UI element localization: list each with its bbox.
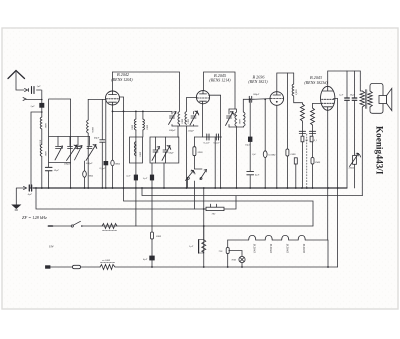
svg-text:B 2043: B 2043 xyxy=(253,244,257,254)
wire grid feed column x102.3 xyxy=(101,99,103,188)
varcap VC1 xyxy=(55,146,63,160)
svg-text:0,1µF: 0,1µF xyxy=(204,142,211,145)
svg-text:100pF: 100pF xyxy=(253,93,260,96)
wire box1 right leg xyxy=(70,163,72,188)
svg-text:5µF: 5µF xyxy=(143,177,148,180)
svg-text:1µF: 1µF xyxy=(126,175,131,178)
svg-text:443/I: 443/I xyxy=(375,155,385,175)
wire osc bottom rail A xyxy=(172,125,198,127)
title Koenig 443/I rotated xyxy=(375,126,385,175)
wire line y195.5 xyxy=(142,188,363,196)
wire IF primary drop xyxy=(135,111,137,137)
ground symbol xyxy=(12,205,21,209)
wire reaction coil link xyxy=(294,73,303,104)
svg-text:4µF: 4µF xyxy=(255,174,260,177)
fuse F1 xyxy=(73,265,81,268)
resistor R6 spring xyxy=(311,108,315,125)
svg-text:Koenig: Koenig xyxy=(375,126,385,154)
potentiometer arm pot1 xyxy=(186,170,196,181)
capacitor C4 blob xyxy=(134,175,137,180)
svg-text:(RENS 1823d): (RENS 1823d) xyxy=(304,80,328,85)
varcap VC4 trim xyxy=(86,145,97,161)
mains bus y267 xyxy=(46,266,338,268)
switch arm S2 xyxy=(200,170,207,180)
tube V1 cathode xyxy=(109,102,117,104)
svg-text:0,003: 0,003 xyxy=(92,126,95,132)
box C13 0.1 xyxy=(310,136,313,142)
osc B varcap arrow xyxy=(190,111,199,125)
capacitor C10 xyxy=(299,131,305,133)
svg-text:1000: 1000 xyxy=(139,151,142,157)
capacitor C18 below box1 xyxy=(45,167,52,170)
capacitor C7 series xyxy=(216,134,218,140)
tube V3 grid xyxy=(271,98,284,100)
antenna xyxy=(8,71,25,79)
wire V2 grid lead xyxy=(187,98,198,112)
svg-text:0,003: 0,003 xyxy=(295,89,298,95)
wire line y209 with divider xyxy=(36,188,236,209)
wire column x250.2 xyxy=(249,99,251,188)
varcap VC7 IF trim xyxy=(162,146,171,161)
resistor R14 grid leak oval xyxy=(83,171,87,177)
shield box a xyxy=(130,137,143,163)
coil L3 band2 xyxy=(87,120,89,133)
wire spring resistor column x312.5 xyxy=(312,104,314,189)
svg-text:1000: 1000 xyxy=(146,124,149,130)
capacitor C3 blob xyxy=(104,161,108,165)
svg-text:5000: 5000 xyxy=(156,235,162,238)
wire box a drop long xyxy=(135,137,137,226)
box C19 0.1 xyxy=(294,158,297,164)
svg-text:0,1: 0,1 xyxy=(305,139,308,142)
resistor R5 spring xyxy=(300,104,304,123)
osc C varcap arrow xyxy=(226,112,235,126)
svg-text:2µF: 2µF xyxy=(31,105,36,108)
wire x123.5 column to bus xyxy=(123,111,125,188)
wire heater line y240 xyxy=(228,239,328,241)
coil L1a antenna xyxy=(40,117,42,129)
resistor R10 with parallel cap xyxy=(198,240,200,253)
tube V3 envelope xyxy=(270,92,284,106)
capacitor C20 40pF xyxy=(100,140,105,142)
svg-text:10µF: 10µF xyxy=(54,169,60,172)
wire V3 top stem xyxy=(277,73,294,92)
varcap VC2 xyxy=(67,145,78,161)
svg-text:150pF: 150pF xyxy=(188,129,195,132)
tube V4 anode xyxy=(323,86,334,91)
wire VC4 hang xyxy=(89,137,91,146)
tube V4 grids xyxy=(322,98,335,100)
tube V2 envelope xyxy=(196,91,209,104)
wire V4 grid lead xyxy=(313,103,321,105)
wire coupling line y111.4 xyxy=(113,110,173,112)
svg-text:1MΩ: 1MΩ xyxy=(88,174,93,177)
svg-text:0,010: 0,010 xyxy=(39,139,42,145)
varcap VC6 IF trim xyxy=(152,147,160,161)
wire VC7 hang xyxy=(165,137,167,163)
svg-text:(RENS 1214): (RENS 1214) xyxy=(209,78,231,83)
wire osc B arrow drop xyxy=(193,112,195,127)
osc B coil xyxy=(185,112,187,125)
wire osc C arrow drop xyxy=(228,109,230,127)
resistor R12 750 xyxy=(226,248,229,254)
wire antenna return x31 xyxy=(31,112,42,188)
wire osc A arrow drop xyxy=(171,111,173,126)
resistor R15 xyxy=(286,149,289,156)
wire line y201 xyxy=(124,188,314,226)
svg-text:NSB: NSB xyxy=(231,259,237,262)
wire pot drop x194.6 xyxy=(194,181,196,209)
wire V1 screen lead right xyxy=(120,97,124,111)
IF coil secondary xyxy=(143,119,145,130)
svg-text:ca 1800: ca 1800 xyxy=(102,259,111,262)
wire osc C rail xyxy=(229,109,237,112)
svg-text:500pF: 500pF xyxy=(86,162,93,165)
speaker voice coil box xyxy=(379,96,387,104)
svg-text:1MΩ: 1MΩ xyxy=(290,153,295,156)
svg-text:B 2045: B 2045 xyxy=(286,244,290,254)
wire second aerial input xyxy=(26,99,42,101)
svg-text:1µF: 1µF xyxy=(37,85,42,88)
wire V3 cathode column xyxy=(276,105,278,188)
capacitor C5 100pF xyxy=(249,96,251,102)
capacitor C14 1uF xyxy=(345,98,350,100)
svg-text:0,5MΩ: 0,5MΩ xyxy=(268,154,275,157)
tube V3 anode xyxy=(273,92,281,95)
svg-text:50pF: 50pF xyxy=(169,152,175,155)
svg-text:1000: 1000 xyxy=(238,119,241,125)
wire V2 cathode column xyxy=(201,104,203,137)
svg-text:0,1µF: 0,1µF xyxy=(214,142,221,145)
wire VC2 hang xyxy=(69,137,71,147)
resistor R11 barretter xyxy=(151,232,154,239)
wire cap column x354.5 xyxy=(354,71,356,188)
svg-text:UW: UW xyxy=(49,244,54,248)
capacitor C11 xyxy=(309,131,315,133)
svg-text:1000: 1000 xyxy=(187,118,190,124)
wire cap C1 to node xyxy=(37,89,42,91)
IF coil primary xyxy=(134,119,136,130)
wire grid return column x105.8 xyxy=(105,99,107,188)
wire V4 top stem and bus y71 xyxy=(328,71,361,86)
wire column x265.2 xyxy=(264,99,266,188)
svg-text:1MΩ: 1MΩ xyxy=(115,163,120,166)
output transformer T1 xyxy=(360,91,365,107)
svg-text:5MΩ: 5MΩ xyxy=(315,161,320,164)
speaker frame xyxy=(370,84,383,114)
resistor R2 2000 xyxy=(193,147,196,156)
wire V1 grid lead rail xyxy=(88,98,106,100)
tube V3 cathode dot xyxy=(276,101,278,103)
svg-text:500pF: 500pF xyxy=(169,129,176,132)
arrow barbs for variable components xyxy=(60,111,359,173)
capacitor C2 blocking xyxy=(40,103,44,107)
capacitor C15 10uF xyxy=(352,98,357,100)
varcap VC3 xyxy=(75,146,83,161)
osc A varcap arrow xyxy=(169,112,177,125)
connector stub xyxy=(48,225,52,227)
wire VC6 hang xyxy=(155,137,157,163)
wire divider feed column xyxy=(203,188,205,267)
wire grid leak column x84.5 xyxy=(84,161,86,188)
tube V2 anode xyxy=(200,91,207,94)
switch S1 xyxy=(71,225,73,227)
wire osc A coil tail xyxy=(179,124,181,126)
tube V1 envelope xyxy=(106,91,120,105)
svg-text:6µF: 6µF xyxy=(28,193,33,196)
svg-text:1µF: 1µF xyxy=(339,94,344,97)
wire osc B bottom drop xyxy=(186,126,188,188)
pilot lamp LP1 xyxy=(239,256,245,262)
wire mid rail y136.5 xyxy=(49,136,90,138)
wire spring resistor column x302 xyxy=(301,123,303,189)
tube V2 grid xyxy=(197,97,209,99)
wire stub x295.8 xyxy=(295,164,297,188)
svg-text:30kΩ: 30kΩ xyxy=(349,167,355,170)
mech link dashed right xyxy=(306,134,308,188)
tube V4 cathode xyxy=(324,107,333,111)
wire stage1 top bus y72 xyxy=(113,72,180,111)
svg-text:6µF: 6µF xyxy=(143,258,148,261)
wire band coil column x88.2 xyxy=(87,99,89,188)
plug jack P1 xyxy=(25,89,29,92)
coil in box a xyxy=(134,142,136,156)
svg-text:ZF = 128 kHz: ZF = 128 kHz xyxy=(22,215,47,220)
wire lamp branch xyxy=(229,251,242,268)
svg-text:1µF: 1µF xyxy=(189,245,194,248)
wire V4 side lead xyxy=(334,99,338,268)
wire resistor R2 column xyxy=(194,137,202,169)
capacitor C6 series xyxy=(207,134,209,140)
tube V4 envelope xyxy=(321,86,335,110)
wire VC1 hang xyxy=(57,137,59,147)
svg-text:0,5µF: 0,5µF xyxy=(100,167,107,170)
wire antenna stem and lead-in xyxy=(16,72,24,90)
wire heater dropper column xyxy=(227,240,229,267)
resistor R16 on switch line xyxy=(102,224,117,229)
osc A coil xyxy=(178,112,180,125)
heater filament humps xyxy=(249,235,256,240)
wire switch line y226 xyxy=(50,225,313,227)
wire V4 cathode long column xyxy=(327,110,329,267)
wire V2 top stem and box xyxy=(204,72,236,109)
potentiometer R8 30k xyxy=(353,156,357,165)
wire osc C bottom rail xyxy=(229,127,244,188)
wire VC3 hang xyxy=(77,137,79,147)
plug jack P2 xyxy=(23,98,26,101)
wire transformer secondary return xyxy=(361,107,363,196)
tube V1 grid xyxy=(106,98,119,100)
wire pot column x189 xyxy=(187,178,189,188)
resistor R4 grid leak oval xyxy=(263,151,267,158)
svg-text:(REN 1821): (REN 1821) xyxy=(248,79,268,84)
svg-text:2000: 2000 xyxy=(198,151,204,154)
wire cap column x347 xyxy=(346,71,348,188)
wire ground stem xyxy=(16,188,24,205)
svg-text:10µF: 10µF xyxy=(245,144,251,147)
wire V1 cathode column xyxy=(112,105,114,189)
wire transformer primary column xyxy=(360,71,362,91)
svg-text:0,1: 0,1 xyxy=(314,139,317,142)
wire osc A bottom drop xyxy=(177,126,179,137)
wire V2 plate drop xyxy=(209,95,221,188)
wire box1 ground leg xyxy=(48,163,50,188)
capacitor C9 electrolytic xyxy=(247,171,254,174)
tube V2 cathode xyxy=(200,101,207,104)
capacitor C17 blob xyxy=(150,256,155,260)
coil L1b antenna xyxy=(40,144,42,156)
resistor R1 oval xyxy=(111,160,114,166)
resistor R7 xyxy=(311,158,314,165)
svg-text:B 2036: B 2036 xyxy=(302,244,306,254)
divider resistor R9 742 xyxy=(206,207,224,210)
wire V3 grid rail with cap xyxy=(243,99,270,112)
tuned circuit box1 outline xyxy=(49,99,71,163)
svg-text:500pF: 500pF xyxy=(64,163,71,166)
plug jack P3 xyxy=(24,187,27,190)
svg-text:1000: 1000 xyxy=(131,124,134,130)
tube V1 anode xyxy=(109,91,117,95)
wire drop x215.2 xyxy=(214,137,216,188)
svg-text:10µF: 10µF xyxy=(350,94,356,97)
capacitor C16 6uF xyxy=(29,185,31,191)
svg-text:40pF: 40pF xyxy=(94,137,100,140)
osc C coil 2 xyxy=(244,112,246,127)
svg-text:(RENS 1204): (RENS 1204) xyxy=(111,77,133,82)
svg-text:1000: 1000 xyxy=(181,118,184,124)
wire box b drops xyxy=(152,163,164,267)
wire screen column x287.4 xyxy=(286,73,288,188)
wire antenna column x41.8 xyxy=(41,90,43,188)
wire V1 plate top stem xyxy=(112,72,114,91)
capacitor C8 grid blob xyxy=(248,137,252,142)
capacitor C1 1uF xyxy=(32,87,35,94)
svg-text:1000: 1000 xyxy=(45,123,48,129)
mains connector xyxy=(46,266,51,269)
wire IF secondary drop xyxy=(142,111,144,137)
reaction coil L5 xyxy=(292,84,294,96)
speaker cone xyxy=(387,88,392,110)
osc C coil 1 xyxy=(235,112,237,126)
resistor R13 mains xyxy=(100,265,115,270)
shield box b xyxy=(150,137,179,163)
ground bus y188 xyxy=(33,187,347,189)
box C12 0.1 xyxy=(301,136,304,142)
svg-text:1000: 1000 xyxy=(45,151,48,157)
capacitor C4b blob xyxy=(150,175,153,180)
svg-text:B 2042: B 2042 xyxy=(269,244,273,254)
wire cathode network y137 xyxy=(194,136,221,138)
